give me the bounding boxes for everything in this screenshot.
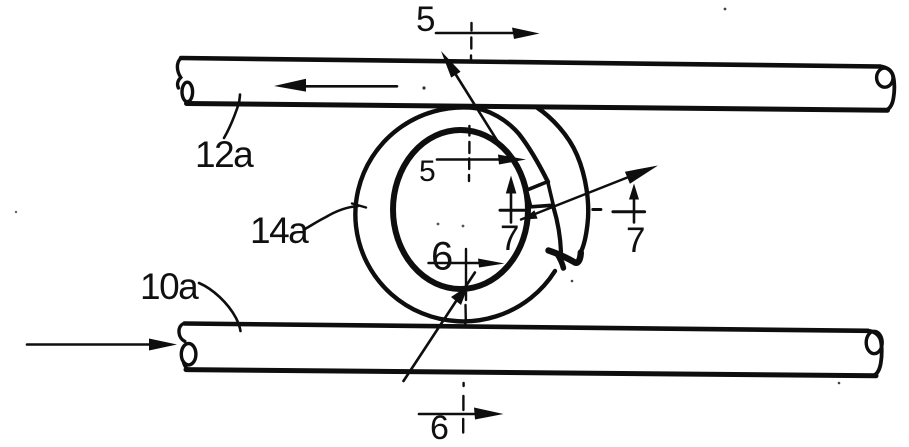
section marker 7 right: up arrow — [633, 198, 636, 222]
section marker 7 inner: up arrow — [510, 194, 513, 222]
section marker 6 inner: crossbar — [429, 262, 482, 265]
svg-text:7: 7 — [500, 219, 519, 258]
section marker 6 inner: centerline — [465, 249, 467, 300]
tube 10a body fill — [185, 324, 881, 376]
section line 6-6 diagonal — [404, 273, 475, 382]
ring 14a outer spiral arc — [355, 107, 555, 321]
section marker 5 inner: dashed centerline — [468, 126, 471, 181]
svg-text:6: 6 — [430, 409, 449, 447]
tube 10a left bottom corner — [184, 363, 190, 370]
ring 14a overlap end inner arc — [553, 207, 561, 252]
tube 12a internal left arrow — [303, 85, 397, 88]
leader 10a — [199, 283, 241, 331]
tube 10a top edge — [185, 324, 869, 331]
speckle dots — [724, 8, 727, 11]
ring 14a inner circle — [393, 130, 528, 289]
section marker 7 inner: crossbar — [500, 209, 528, 212]
svg-text:5: 5 — [416, 0, 435, 39]
ring 14a overlap end outer arc — [537, 108, 588, 253]
section line 5-5 diagonal — [452, 69, 498, 143]
section marker 6 bottom: dashed centerline — [462, 383, 465, 433]
svg-text:6: 6 — [431, 235, 453, 279]
section marker 5 top: crossbar — [436, 32, 514, 35]
tube 12a right end oval — [877, 68, 893, 87]
leader 12a — [224, 95, 240, 139]
tube 12a left end oval — [182, 82, 193, 101]
tube 12a right end cap — [880, 66, 894, 110]
tube 10a bottom edge — [186, 370, 876, 376]
ring 14a hook spur — [557, 254, 563, 269]
section marker 7 right: dash — [593, 208, 601, 211]
external left-to-right arrow at bottom left — [27, 343, 152, 346]
section marker 6 bottom: crossbar — [419, 413, 476, 416]
tube 12a body fill — [181, 58, 894, 110]
section marker 5 inner: crossbar — [437, 158, 500, 161]
tube 10a left end oval — [181, 344, 196, 365]
section line 7-7 diagonal — [521, 169, 650, 220]
section marker 7 right: crossbar — [613, 210, 645, 213]
svg-text:7: 7 — [626, 221, 645, 260]
svg-text:10a: 10a — [140, 266, 199, 307]
section marker 5 top: dashed centerline — [470, 23, 473, 62]
leader 14a — [305, 206, 358, 229]
tube 10a left end cap — [179, 324, 185, 342]
svg-text:12a: 12a — [195, 134, 254, 175]
ring 14a hook end — [549, 251, 581, 263]
tube 12a left end cap — [177, 58, 181, 88]
tube 10a right end oval — [866, 331, 882, 353]
svg-text:14a: 14a — [250, 210, 309, 251]
tube 12a bottom edge — [187, 104, 888, 111]
ring 14a end tab — [527, 182, 554, 207]
tube 12a top edge — [181, 58, 880, 67]
tube 10a right end cap — [868, 331, 882, 376]
svg-text:5: 5 — [419, 155, 436, 188]
